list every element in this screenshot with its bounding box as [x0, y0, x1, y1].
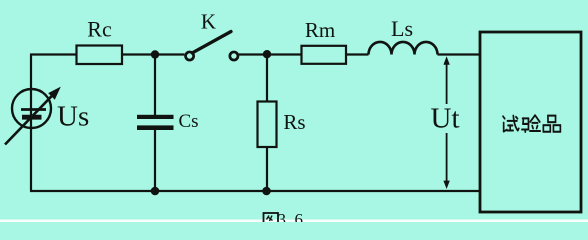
- resistor Rs: [258, 102, 277, 148]
- wire: switch to Rm: [238, 53, 302, 55]
- svg-text:Ls: Ls: [391, 16, 413, 41]
- caption 图3-6 (figure number, cut off at bottom edge): [264, 210, 304, 229]
- wire: top left corner to Rc: [30, 53, 77, 55]
- svg-text:Cs: Cs: [178, 111, 198, 132]
- wire: Rc to switch: [122, 53, 184, 55]
- wire: Rs branch upper lead: [266, 55, 268, 102]
- test object box (device under test): [480, 32, 581, 212]
- label 试验品 (test object, drawn glyphs): [503, 115, 560, 132]
- svg-text:Rc: Rc: [87, 17, 112, 42]
- wire: Cs branch upper lead: [154, 55, 156, 116]
- voltage arrow Ut (double-headed measurement arrow): [443, 56, 449, 189]
- inductor Ls: [369, 42, 438, 55]
- wire: Cs branch lower lead: [154, 130, 156, 191]
- node: junction of Rs branch on bottom wire: [262, 187, 271, 196]
- wire: left vertical (source branch): [30, 55, 32, 192]
- switch K: [186, 32, 238, 61]
- wire: Rs branch lower lead: [266, 147, 268, 191]
- capacitor Cs: [137, 115, 174, 130]
- wire: bottom return: [30, 190, 480, 192]
- svg-text:Rm: Rm: [305, 18, 335, 42]
- svg-text:K: K: [201, 10, 216, 34]
- source Us (adjustable voltage source): [5, 87, 61, 145]
- wire: Ls to test object box: [438, 53, 481, 55]
- resistor Rm: [302, 46, 347, 64]
- node: junction of Cs branch on top wire: [151, 50, 159, 58]
- svg-text:Us: Us: [57, 100, 89, 132]
- svg-text:3: 3: [278, 210, 287, 222]
- node: junction of Cs branch on bottom wire: [151, 187, 160, 196]
- svg-text:Ut: Ut: [431, 103, 460, 135]
- svg-text:6: 6: [295, 210, 304, 222]
- node: junction of Rs branch on top wire: [263, 50, 271, 58]
- svg-text:Rs: Rs: [283, 110, 305, 134]
- wire: Rm to Ls: [346, 53, 369, 55]
- resistor Rc: [77, 46, 123, 65]
